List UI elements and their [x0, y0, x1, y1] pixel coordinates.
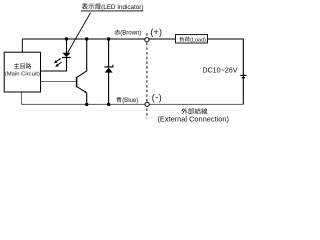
- load box: [176, 35, 208, 43]
- LED D1 triangle: [62, 53, 70, 57]
- terminal plus circle: [145, 38, 149, 42]
- label underline: [81, 10, 143, 12]
- zener diode ZD1 cathode bar with hook: [104, 65, 113, 67]
- label 外部結線: [181, 108, 207, 114]
- wire top rail: [22, 38, 175, 40]
- leader line to LED: [68, 13, 91, 53]
- svg-text:(-): (-): [152, 92, 163, 102]
- zener diode ZD1 triangle: [105, 68, 113, 73]
- transistor Q1 base bar: [76, 77, 78, 88]
- wire zener branch upper: [108, 39, 110, 67]
- terminal minus circle: [145, 102, 149, 106]
- wire main box bottom to rail: [21, 92, 23, 105]
- junction dot bottom-zener: [107, 103, 110, 106]
- label 表示燈: [82, 3, 101, 9]
- wire rail right of load: [208, 38, 244, 40]
- LED emission arrow 2: [55, 62, 61, 67]
- wire zener down: [108, 72, 110, 104]
- LED emission arrow 1: [54, 59, 61, 64]
- label 赤: [114, 30, 120, 36]
- junction dot rail-LED: [65, 37, 68, 40]
- wire LED branch upper: [66, 39, 68, 53]
- label 青: [116, 97, 121, 103]
- junction dot rail-collector: [85, 37, 88, 40]
- wire emitter down: [86, 93, 88, 105]
- wire LED cathode to main box: [41, 58, 67, 72]
- wire collector branch: [77, 39, 87, 77]
- svg-text:(External Connection): (External Connection): [157, 114, 228, 123]
- svg-text:(Blue): (Blue): [122, 98, 138, 104]
- main circuit box U1: [4, 52, 40, 92]
- battery BT1 short plate: [242, 77, 245, 79]
- wire base from main box: [41, 81, 76, 83]
- wire main box top to rail: [21, 39, 23, 53]
- svg-text:(Load): (Load): [190, 37, 206, 43]
- label 主回路: [14, 63, 31, 68]
- svg-text:(LED Indicator): (LED Indicator): [101, 4, 143, 11]
- svg-text:(Main Circuit): (Main Circuit): [5, 71, 40, 77]
- svg-text:DC10~26V: DC10~26V: [202, 67, 237, 75]
- label 負荷: [179, 37, 189, 42]
- transistor Q1 emitter with arrow: [77, 87, 87, 94]
- wire right vertical: [242, 39, 244, 105]
- junction dot rail-zener: [107, 37, 110, 40]
- LED cathode bar: [62, 57, 71, 59]
- wire bottom rail: [22, 103, 244, 105]
- svg-text:(Brown): (Brown): [120, 31, 141, 37]
- battery BT1 long plate: [240, 74, 246, 76]
- dashed separator line: [146, 33, 148, 118]
- svg-text:(+): (+): [150, 27, 162, 37]
- junction dot bottom-emitter: [85, 103, 88, 106]
